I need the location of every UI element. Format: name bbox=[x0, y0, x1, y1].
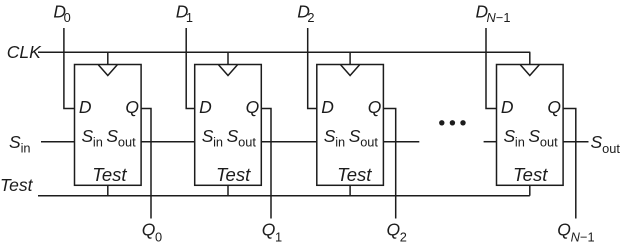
svg-text:Q: Q bbox=[547, 97, 561, 117]
label D0 bbox=[53, 1, 70, 25]
wire D1 input bbox=[186, 28, 195, 109]
wire Sout2 stub bbox=[383, 141, 419, 143]
svg-text:S: S bbox=[82, 126, 94, 146]
svg-text:1: 1 bbox=[275, 229, 282, 244]
svg-text:in: in bbox=[93, 134, 103, 149]
wire D2 input bbox=[308, 28, 317, 109]
label Sout (right output) bbox=[591, 132, 621, 156]
label Sin (left input) bbox=[9, 132, 31, 156]
flip-flop FF2 bbox=[317, 65, 384, 186]
wire Test stub FF0 bbox=[107, 185, 109, 195]
flip-flop FF1 bbox=[195, 65, 262, 186]
svg-text:Test: Test bbox=[216, 164, 251, 185]
wire Sin stub FFN-1 bbox=[484, 141, 497, 143]
wire CLK stub FFN-1 bbox=[529, 52, 531, 64]
svg-text:S: S bbox=[349, 126, 361, 146]
pin Sin Sout FFN-1 bbox=[504, 126, 559, 150]
svg-text:S: S bbox=[528, 126, 540, 146]
svg-text:Q: Q bbox=[246, 97, 260, 117]
wire Sout1 to Sin2 bbox=[261, 141, 317, 143]
svg-text:D: D bbox=[79, 97, 92, 117]
svg-text:out: out bbox=[360, 134, 378, 149]
svg-text:Test: Test bbox=[92, 164, 127, 185]
svg-text:2: 2 bbox=[400, 229, 407, 244]
clock triangle FFN-1 bbox=[520, 65, 539, 76]
svg-text:Test: Test bbox=[337, 164, 372, 185]
svg-text:Q: Q bbox=[125, 97, 139, 117]
svg-text:D: D bbox=[501, 97, 514, 117]
svg-text:Q: Q bbox=[262, 220, 276, 240]
svg-text:Q: Q bbox=[368, 97, 382, 117]
svg-text:−1: −1 bbox=[496, 10, 511, 25]
clock triangle FF1 bbox=[219, 65, 238, 76]
wire Test stub FFN-1 bbox=[529, 185, 531, 195]
svg-text:out: out bbox=[602, 141, 620, 156]
svg-text:Q: Q bbox=[142, 220, 156, 240]
svg-text:S: S bbox=[106, 126, 118, 146]
wire Test stub FF2 bbox=[349, 185, 351, 195]
wire Test bus bbox=[38, 195, 530, 197]
svg-text:S: S bbox=[324, 126, 336, 146]
svg-text:CLK: CLK bbox=[7, 42, 42, 62]
pin Sin Sout FF1 bbox=[202, 126, 257, 150]
clock triangle FF2 bbox=[341, 65, 360, 76]
svg-text:in: in bbox=[515, 134, 525, 149]
svg-text:−1: −1 bbox=[580, 229, 595, 244]
svg-text:0: 0 bbox=[64, 10, 71, 25]
svg-text:in: in bbox=[335, 134, 345, 149]
svg-text:0: 0 bbox=[155, 229, 162, 244]
svg-text:S: S bbox=[9, 132, 21, 152]
wire Sout0 to Sin1 bbox=[141, 141, 195, 143]
svg-text:S: S bbox=[504, 126, 516, 146]
svg-text:Test: Test bbox=[513, 164, 548, 185]
wire QN-1 output bbox=[563, 109, 576, 219]
wire Q1 output bbox=[261, 109, 271, 219]
svg-text:S: S bbox=[227, 126, 239, 146]
svg-text:Q: Q bbox=[557, 220, 571, 240]
wire Test stub FF1 bbox=[227, 185, 229, 195]
label Q0 bbox=[142, 220, 162, 245]
wire CLK stub FF0 bbox=[107, 52, 109, 64]
svg-text:D: D bbox=[321, 97, 334, 117]
svg-text:S: S bbox=[202, 126, 214, 146]
wire CLK bus bbox=[38, 51, 530, 53]
svg-text:in: in bbox=[21, 140, 31, 155]
ellipsis dots bbox=[439, 120, 466, 125]
label DN-1 bbox=[476, 1, 511, 25]
wire CLK stub FF2 bbox=[349, 52, 351, 64]
label D2 bbox=[297, 1, 314, 25]
svg-text:Test: Test bbox=[0, 175, 34, 195]
svg-text:D: D bbox=[199, 97, 212, 117]
pin Sin Sout FF0 bbox=[82, 126, 137, 150]
svg-text:1: 1 bbox=[186, 10, 193, 25]
svg-text:out: out bbox=[118, 134, 136, 149]
svg-text:Q: Q bbox=[387, 220, 401, 240]
svg-text:S: S bbox=[591, 132, 603, 152]
wire CLK stub FF1 bbox=[227, 52, 229, 64]
svg-text:in: in bbox=[213, 134, 223, 149]
label QN-1 bbox=[557, 220, 594, 245]
label D1 bbox=[176, 1, 193, 25]
wire Q0 output bbox=[141, 109, 151, 219]
label Q2 bbox=[387, 220, 407, 245]
label Q1 bbox=[262, 220, 282, 245]
flip-flop FF0 bbox=[75, 65, 142, 186]
svg-text:2: 2 bbox=[307, 10, 314, 25]
wire DN-1 input bbox=[486, 28, 497, 109]
svg-text:out: out bbox=[238, 134, 256, 149]
pin Sin Sout FF2 bbox=[324, 126, 379, 150]
svg-text:out: out bbox=[540, 134, 558, 149]
wire Q2 output bbox=[383, 109, 395, 219]
wire Sout output bbox=[563, 141, 588, 143]
wire Sin input bbox=[41, 141, 75, 143]
wire D0 input bbox=[64, 28, 75, 109]
clock triangle FF0 bbox=[98, 65, 117, 76]
flip-flop FFN-1 bbox=[497, 65, 564, 186]
